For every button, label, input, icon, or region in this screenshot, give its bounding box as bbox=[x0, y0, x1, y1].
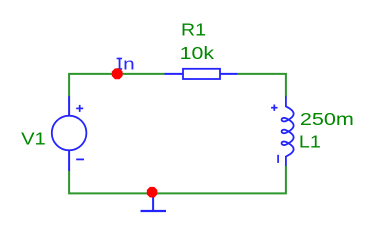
wire V1 lead top bbox=[68, 96, 70, 116]
wire top-left segment bbox=[69, 74, 164, 97]
V1 minus sign bbox=[76, 158, 84, 160]
node In junction dot bbox=[112, 68, 123, 79]
svg-text:n: n bbox=[123, 56, 135, 74]
wire top-right segment bbox=[238, 74, 286, 97]
ground junction dot bbox=[147, 187, 158, 198]
svg-text:R1: R1 bbox=[181, 20, 206, 40]
inductor L1 coil bbox=[282, 107, 294, 157]
V1 plus sign bbox=[76, 105, 83, 112]
svg-text:250m: 250m bbox=[300, 109, 354, 129]
ground stem bbox=[152, 197, 154, 211]
voltage source V1 circle bbox=[52, 116, 87, 151]
resistor R1 body bbox=[183, 69, 220, 79]
ground bar bbox=[141, 210, 167, 212]
wire bottom rail with left and right risers bbox=[69, 165, 286, 193]
wire inductor lead top bbox=[285, 96, 287, 107]
inductor minus sign (rotated) bbox=[277, 155, 279, 163]
node label In bbox=[117, 56, 135, 74]
svg-text:L1: L1 bbox=[299, 132, 321, 152]
wire V1 lead bottom bbox=[68, 151, 70, 171]
wire resistor lead right bbox=[219, 73, 238, 75]
svg-text:V1: V1 bbox=[21, 129, 46, 149]
inductor plus sign bbox=[271, 105, 277, 111]
wire resistor lead left bbox=[165, 73, 185, 75]
svg-text:10k: 10k bbox=[180, 43, 215, 63]
wire inductor lead bottom bbox=[285, 156, 287, 166]
